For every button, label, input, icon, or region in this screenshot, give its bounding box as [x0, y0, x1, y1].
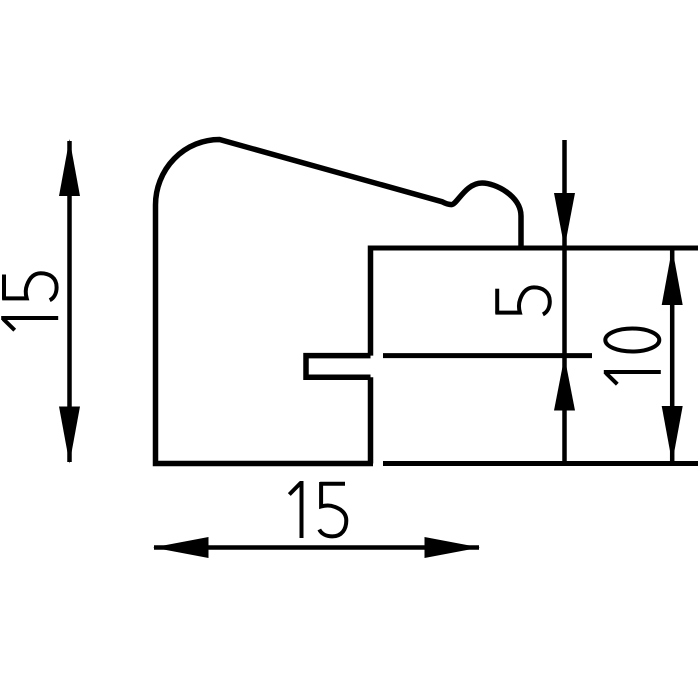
dimension 15 vertical: top arrowhead	[59, 139, 80, 196]
bottom edge right segment + extension line (y=463.5)	[383, 461, 698, 466]
rabbet depth line (middle, y=355.6)	[383, 353, 592, 358]
dimension 10: bottom arrowhead	[662, 406, 683, 463]
dimension 5: label	[495, 287, 549, 314]
moulding profile outline (left section: bottom, left edge, top arc, slope, valley, bead)	[156, 140, 522, 464]
dimension 5: line (passes through, y140-463)	[562, 140, 567, 464]
lip notch (top, left, bottom edges)	[306, 356, 371, 378]
dimension 10: top arrowhead	[662, 248, 683, 305]
rabbet left edge lower segment	[368, 377, 374, 463]
dimension 15 horizontal: line	[154, 545, 479, 550]
dimension 5: down arrowhead (above top edge)	[554, 193, 575, 248]
dimension 15 vertical: line	[67, 141, 72, 462]
dimension 10: line	[670, 249, 675, 462]
rabbet left edge upper segment	[368, 246, 374, 356]
dimension 15 vertical: bottom arrowhead	[59, 407, 80, 464]
rabbet top edge + extension line (y=248)	[368, 246, 698, 251]
dimension 15 vertical: label	[1, 273, 58, 330]
dimension 15 horizontal: right arrowhead	[425, 537, 481, 558]
dimension 15 horizontal: label	[289, 481, 346, 538]
dimension 5: up arrowhead (below depth line)	[554, 357, 575, 411]
dimension 15 horizontal: left arrowhead	[153, 537, 209, 558]
dimension 10: label	[604, 329, 661, 385]
